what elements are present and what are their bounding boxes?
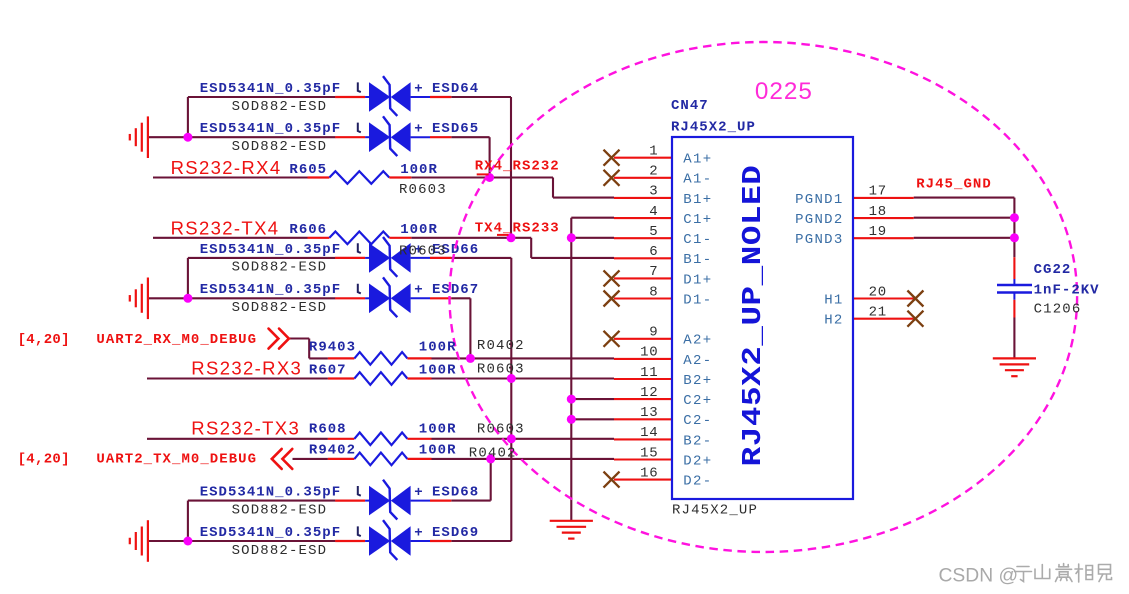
svg-text:RJ45X2_UP: RJ45X2_UP <box>672 502 758 518</box>
svg-text:16: 16 <box>640 465 658 481</box>
svg-text:A2+: A2+ <box>683 333 712 349</box>
svg-text:SOD882-ESD: SOD882-ESD <box>232 502 328 518</box>
svg-text:CN47: CN47 <box>671 98 709 114</box>
svg-text:CSDN @: CSDN @ <box>939 566 1019 587</box>
svg-text:19: 19 <box>869 224 887 240</box>
svg-text:B1-: B1- <box>683 252 712 268</box>
svg-text:D2+: D2+ <box>683 453 712 469</box>
svg-text:R0603: R0603 <box>399 182 447 198</box>
svg-text:100R: 100R <box>400 222 438 238</box>
svg-text:ESD5341N_0.35pF: ESD5341N_0.35pF <box>200 282 341 298</box>
svg-text:RJ45_GND: RJ45_GND <box>916 176 992 192</box>
svg-text:100R: 100R <box>419 340 457 356</box>
svg-text:H2: H2 <box>824 313 843 329</box>
svg-text:C1206: C1206 <box>1034 301 1082 317</box>
svg-text:RJ45X2_UP: RJ45X2_UP <box>671 119 756 135</box>
svg-text:R9402: R9402 <box>309 442 356 458</box>
svg-text:R0603: R0603 <box>399 243 447 259</box>
svg-text:UART2_RX_M0_DEBUG: UART2_RX_M0_DEBUG <box>96 332 257 348</box>
svg-text:R608: R608 <box>309 421 347 437</box>
svg-text:21: 21 <box>869 305 887 321</box>
svg-text:+: + <box>414 485 423 501</box>
svg-text:PGND2: PGND2 <box>795 212 844 228</box>
svg-text:[4,20]: [4,20] <box>18 332 70 348</box>
svg-text:12: 12 <box>640 385 658 401</box>
svg-text:A1-: A1- <box>683 172 712 188</box>
svg-text:B2+: B2+ <box>683 373 712 389</box>
svg-text:5: 5 <box>649 224 658 240</box>
svg-text:R0603: R0603 <box>477 421 525 437</box>
svg-text:20: 20 <box>869 284 887 300</box>
svg-text:ESD5341N_0.35pF: ESD5341N_0.35pF <box>200 121 341 137</box>
svg-text:SOD882-ESD: SOD882-ESD <box>232 99 328 115</box>
svg-text:SOD882-ESD: SOD882-ESD <box>232 260 328 276</box>
svg-text:R605: R605 <box>289 162 327 178</box>
svg-text:3: 3 <box>649 184 658 200</box>
svg-text:100R: 100R <box>419 362 457 378</box>
svg-text:1: 1 <box>649 144 658 160</box>
svg-text:SOD882-ESD: SOD882-ESD <box>232 543 328 559</box>
svg-text:ESD5341N_0.35pF: ESD5341N_0.35pF <box>200 525 341 541</box>
svg-text:17: 17 <box>869 184 887 200</box>
svg-text:0225: 0225 <box>755 78 813 105</box>
svg-text:UART2_TX_M0_DEBUG: UART2_TX_M0_DEBUG <box>96 452 257 468</box>
svg-text:D1-: D1- <box>683 292 712 308</box>
svg-text:R606: R606 <box>289 222 327 238</box>
svg-text:PGND3: PGND3 <box>795 232 844 248</box>
svg-text:ESD64: ESD64 <box>432 81 479 97</box>
svg-text:100R: 100R <box>400 162 438 178</box>
svg-text:C1-: C1- <box>683 232 712 248</box>
svg-text:PGND1: PGND1 <box>795 192 844 208</box>
svg-text:18: 18 <box>869 204 887 220</box>
svg-text:100R: 100R <box>419 442 457 458</box>
svg-text:+: + <box>414 81 423 97</box>
svg-text:ESD68: ESD68 <box>432 485 479 501</box>
svg-text:4: 4 <box>649 204 658 220</box>
svg-text:D1+: D1+ <box>683 272 712 288</box>
svg-text:RS232-TX4: RS232-TX4 <box>171 218 280 239</box>
svg-text:10: 10 <box>640 345 658 361</box>
svg-text:D2-: D2- <box>683 474 712 490</box>
svg-text:A2-: A2- <box>683 353 712 369</box>
svg-text:+: + <box>414 283 423 299</box>
svg-text:+: + <box>414 122 423 138</box>
svg-text:ESD5341N_0.35pF: ESD5341N_0.35pF <box>200 242 341 258</box>
svg-text:ESD65: ESD65 <box>432 121 479 137</box>
svg-text:15: 15 <box>640 445 658 461</box>
svg-text:ESD5341N_0.35pF: ESD5341N_0.35pF <box>200 485 341 501</box>
svg-text:+: + <box>414 525 423 541</box>
svg-text:SOD882-ESD: SOD882-ESD <box>232 300 328 316</box>
svg-text:13: 13 <box>640 405 658 421</box>
svg-text:C1+: C1+ <box>683 212 712 228</box>
svg-text:ESD69: ESD69 <box>432 525 479 541</box>
svg-text:11: 11 <box>640 365 658 381</box>
svg-text:6: 6 <box>649 244 658 260</box>
svg-text:C2-: C2- <box>683 413 712 429</box>
svg-text:A1+: A1+ <box>683 152 712 168</box>
svg-text:TX4_RS233: TX4_RS233 <box>475 220 560 236</box>
svg-text:1nF-2KV: 1nF-2KV <box>1034 283 1100 299</box>
svg-text:R0603: R0603 <box>477 361 525 377</box>
svg-text:RS232-RX4: RS232-RX4 <box>171 157 282 178</box>
svg-text:2: 2 <box>649 164 658 180</box>
svg-text:ESD67: ESD67 <box>432 282 479 298</box>
svg-text:RS232-RX3: RS232-RX3 <box>191 357 302 378</box>
svg-text:RX4_RS232: RX4_RS232 <box>475 158 560 174</box>
svg-text:CG22: CG22 <box>1034 262 1072 278</box>
svg-text:SOD882-ESD: SOD882-ESD <box>232 139 328 155</box>
svg-text:B1+: B1+ <box>683 192 712 208</box>
svg-text:RS232-TX3: RS232-TX3 <box>191 418 300 439</box>
svg-text:R0402: R0402 <box>477 338 525 354</box>
svg-text:[4,20]: [4,20] <box>18 452 70 468</box>
svg-text:B2-: B2- <box>683 433 712 449</box>
svg-text:R9403: R9403 <box>309 340 356 356</box>
svg-text:R607: R607 <box>309 362 347 378</box>
svg-text:8: 8 <box>649 284 658 300</box>
svg-text:9: 9 <box>649 325 658 341</box>
svg-text:R0402: R0402 <box>469 446 517 462</box>
svg-text:H1: H1 <box>824 292 843 308</box>
svg-text:14: 14 <box>640 425 658 441</box>
svg-text:100R: 100R <box>419 421 457 437</box>
svg-text:ESD5341N_0.35pF: ESD5341N_0.35pF <box>200 81 341 97</box>
svg-text:7: 7 <box>649 264 658 280</box>
svg-text:C2+: C2+ <box>683 393 712 409</box>
svg-text:RJ45X2_UP_NOLED: RJ45X2_UP_NOLED <box>737 165 768 467</box>
